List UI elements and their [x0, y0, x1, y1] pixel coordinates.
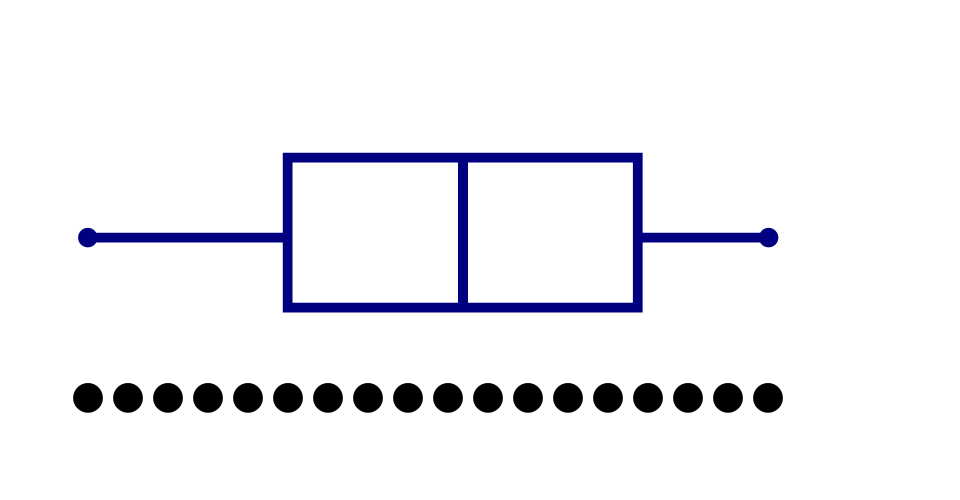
- left whisker: [88, 233, 288, 243]
- data dot 9: [393, 383, 423, 413]
- data dot 3: [153, 383, 183, 413]
- data dot 12: [513, 383, 543, 413]
- right whisker: [638, 233, 769, 243]
- data dot 11: [473, 383, 503, 413]
- data dot 5: [233, 383, 263, 413]
- right whisker endpoint dot: [759, 228, 779, 248]
- data dot 14: [593, 383, 623, 413]
- data dot 1: [73, 383, 103, 413]
- data dot 4: [193, 383, 223, 413]
- data dot 10: [433, 383, 463, 413]
- data dot 13: [553, 383, 583, 413]
- box: [288, 158, 638, 308]
- data dot 2: [113, 383, 143, 413]
- data dot 17: [713, 383, 743, 413]
- data dot 18: [753, 383, 783, 413]
- data dot 7: [313, 383, 343, 413]
- data dot 16: [673, 383, 703, 413]
- median line: [458, 158, 468, 308]
- data dot 6: [273, 383, 303, 413]
- left whisker endpoint dot: [78, 228, 98, 248]
- data dot 8: [353, 383, 383, 413]
- data dot 15: [633, 383, 663, 413]
